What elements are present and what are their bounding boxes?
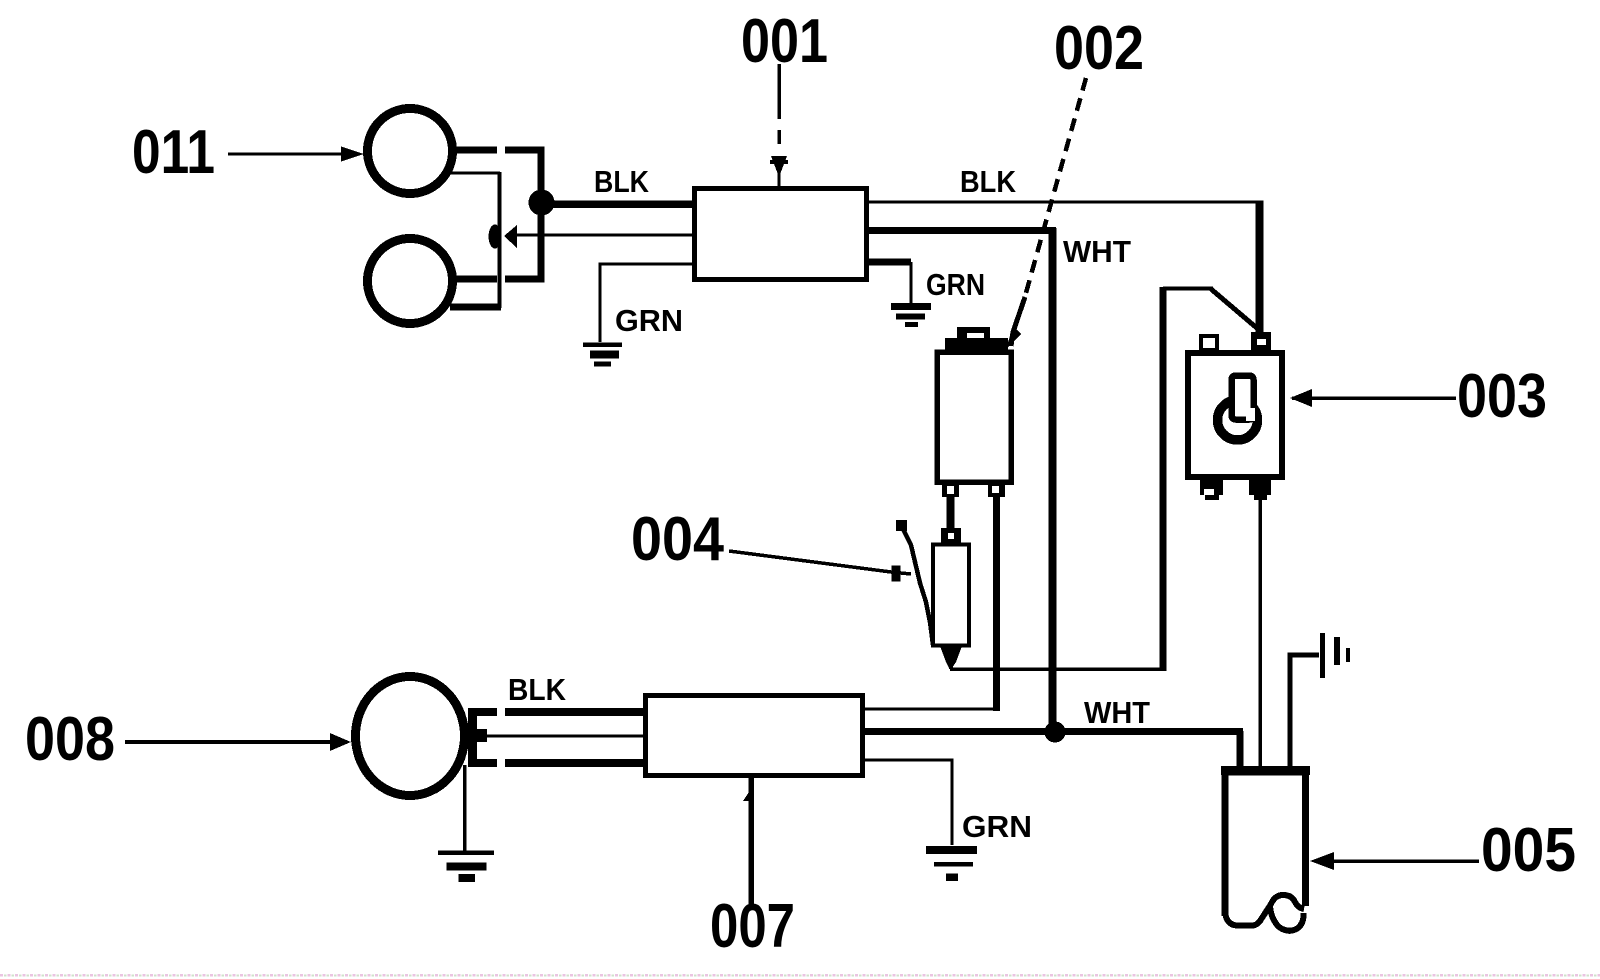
svg-text:BLK: BLK <box>594 164 650 199</box>
svg-text:001: 001 <box>741 7 828 76</box>
svg-text:011: 011 <box>132 118 215 187</box>
svg-text:003: 003 <box>1457 362 1547 431</box>
svg-text:WHT: WHT <box>1063 234 1131 269</box>
svg-text:GRN: GRN <box>926 267 985 302</box>
svg-text:008: 008 <box>25 705 115 774</box>
svg-text:GRN: GRN <box>615 303 683 338</box>
svg-text:GRN: GRN <box>962 809 1032 844</box>
svg-text:004: 004 <box>631 505 724 574</box>
svg-text:BLK: BLK <box>960 164 1017 199</box>
svg-text:BLK: BLK <box>508 672 567 707</box>
svg-text:002: 002 <box>1054 14 1144 83</box>
svg-text:005: 005 <box>1481 816 1576 885</box>
svg-text:WHT: WHT <box>1084 695 1150 730</box>
